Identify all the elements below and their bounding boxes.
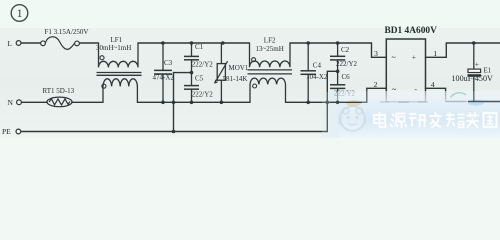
char 精 bbox=[446, 113, 465, 128]
wire E1 column lower redraw bbox=[473, 91, 475, 102]
svg-text:222/Y2: 222/Y2 bbox=[192, 61, 214, 69]
svg-text:30mH~1mH: 30mH~1mH bbox=[96, 44, 131, 52]
circled number 1 bbox=[11, 5, 28, 22]
faded bridge bottom remnant dashes bbox=[380, 101, 466, 104]
capacitor C2 bbox=[330, 43, 345, 71]
char 发 bbox=[430, 113, 442, 128]
svg-text:+: + bbox=[475, 59, 479, 68]
terminal L bbox=[16, 41, 21, 46]
svg-text:BD1 4A600V: BD1 4A600V bbox=[385, 26, 438, 36]
svg-text:1: 1 bbox=[433, 49, 437, 58]
svg-text:PE: PE bbox=[2, 127, 11, 136]
svg-text:13~25mH: 13~25mH bbox=[256, 45, 284, 53]
wire Y-cap midpoint C1C5 to PE riser bbox=[174, 73, 192, 132]
junction dots N rail bbox=[161, 101, 339, 105]
char 圈 bbox=[484, 113, 497, 127]
wire top rail LF1 to LF2 bbox=[138, 42, 250, 44]
watermark wash band bbox=[322, 91, 500, 138]
svg-text:C6: C6 bbox=[342, 73, 351, 81]
wire bridge pin1 to top right rail bbox=[426, 43, 500, 57]
wire N terminal to RT1 bbox=[22, 101, 48, 103]
svg-text:2: 2 bbox=[374, 80, 378, 89]
svg-text:~: ~ bbox=[392, 53, 397, 62]
svg-text:3: 3 bbox=[374, 49, 378, 58]
watermark text 电源研发精英圈 (drawn strokes) bbox=[374, 112, 497, 128]
char 英 bbox=[466, 113, 479, 129]
bridge rectifier BD1 bbox=[386, 39, 425, 102]
svg-text:C5: C5 bbox=[195, 75, 204, 83]
svg-text:581-14K: 581-14K bbox=[223, 75, 248, 83]
svg-text:+: + bbox=[412, 52, 416, 61]
svg-text:104-X2: 104-X2 bbox=[306, 73, 328, 81]
capacitor C3 bbox=[154, 43, 172, 102]
polarity dot LF1 bottom bbox=[102, 84, 106, 88]
svg-text:C1: C1 bbox=[195, 43, 204, 51]
svg-text:C2: C2 bbox=[341, 46, 350, 54]
svg-text:C4: C4 bbox=[313, 61, 322, 69]
capacitor C6 bbox=[330, 71, 345, 102]
capacitor C5 bbox=[184, 73, 199, 103]
fuse F1 bbox=[41, 37, 80, 50]
capacitor C1 bbox=[184, 43, 199, 73]
wire N rail LF1 to LF2 bbox=[137, 101, 250, 103]
terminal N bbox=[17, 100, 22, 105]
wire L terminal to fuse bbox=[21, 42, 41, 44]
wire bottom right rail redraw bbox=[468, 101, 500, 103]
terminal PE bbox=[16, 129, 21, 134]
polarity dot LF1 top bbox=[100, 56, 104, 60]
polarity dot LF2 bottom bbox=[253, 84, 257, 88]
char 源 bbox=[390, 114, 407, 129]
watermark green curl bbox=[451, 93, 467, 98]
junction dot C6 redraw bbox=[336, 101, 339, 104]
wire RT1 to LF1 bottom bbox=[72, 101, 103, 103]
electrolytic capacitor E1 bbox=[468, 43, 481, 102]
svg-text:100uF-450V: 100uF-450V bbox=[452, 74, 494, 83]
svg-text:F1 3.15A/250V: F1 3.15A/250V bbox=[45, 28, 89, 36]
wire N rail LF2 to bridge pin2 jog bbox=[290, 88, 386, 102]
junction dot E1 bottom bbox=[472, 100, 475, 103]
svg-text:RT1 5D-13: RT1 5D-13 bbox=[43, 87, 75, 95]
svg-text:LF1: LF1 bbox=[111, 36, 123, 44]
polarity dot LF2 top bbox=[252, 58, 256, 62]
junction dot C2C6 midpoint bbox=[336, 70, 340, 74]
inductor LF1 common-mode choke bbox=[97, 43, 142, 102]
junction dots top rail bbox=[161, 41, 476, 45]
svg-text:MOV1: MOV1 bbox=[229, 64, 249, 72]
svg-text:L: L bbox=[8, 39, 13, 48]
wire N rail redraw over wash bbox=[330, 101, 362, 103]
varistor MOV1 bbox=[215, 43, 228, 102]
inductor LF2 common-mode choke bbox=[248, 43, 293, 102]
background paper bbox=[0, 0, 500, 145]
watermark cyan smudge bbox=[468, 100, 484, 106]
svg-text:474-X2: 474-X2 bbox=[153, 74, 175, 82]
wire pin2 jog remnant bbox=[362, 89, 367, 103]
svg-text:N: N bbox=[8, 98, 14, 107]
junction dot C1C5 midpoint bbox=[190, 71, 194, 75]
svg-text:1: 1 bbox=[17, 8, 23, 20]
svg-text:222/Y2: 222/Y2 bbox=[192, 90, 214, 98]
junction dot PE rail bbox=[172, 130, 176, 134]
wire bridge pin4 to bottom right rail bbox=[426, 88, 500, 101]
wire PE rail bbox=[21, 71, 338, 131]
capacitor C4 bbox=[301, 43, 317, 102]
svg-text:E1: E1 bbox=[484, 66, 492, 74]
svg-text:222/Y2: 222/Y2 bbox=[336, 60, 358, 68]
svg-text:C3: C3 bbox=[164, 59, 173, 67]
wire top rail LF2 to bridge jog bbox=[290, 43, 386, 57]
watermark logo face bbox=[339, 106, 367, 131]
thermistor RT1 bbox=[47, 97, 72, 107]
char 研 bbox=[409, 114, 427, 127]
char 电 bbox=[374, 112, 386, 127]
wire fuse to LF1 bbox=[79, 42, 98, 44]
watermark warm smudge on N rail bbox=[346, 100, 361, 106]
svg-text:LF2: LF2 bbox=[264, 36, 276, 44]
svg-text:4: 4 bbox=[431, 80, 435, 89]
